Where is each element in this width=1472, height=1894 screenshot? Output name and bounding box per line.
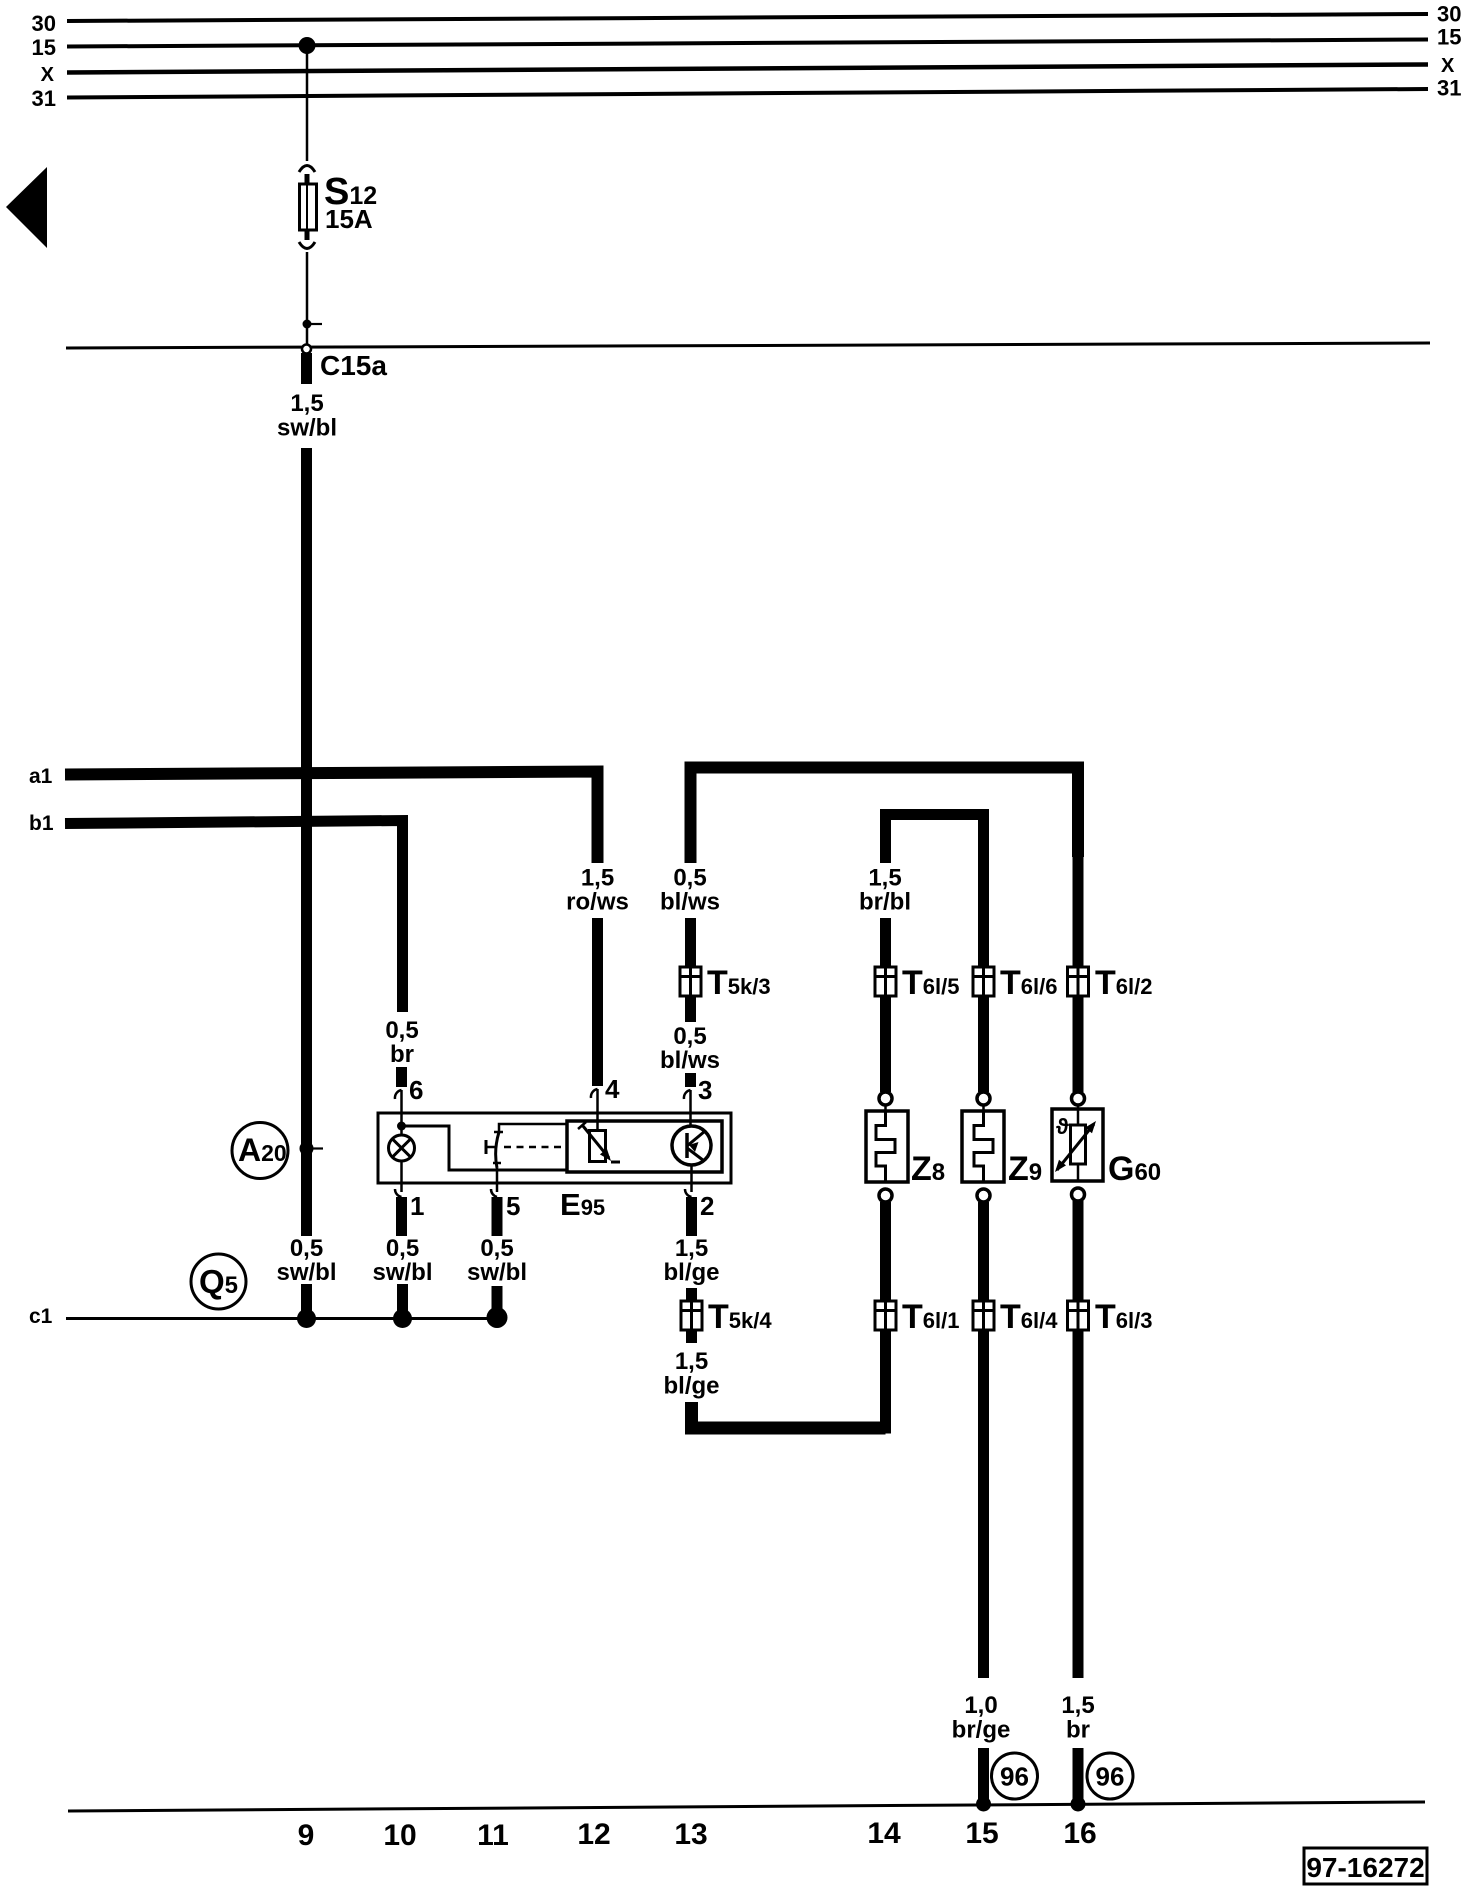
node c1 pin5	[487, 1307, 508, 1328]
svg-text:96: 96	[1096, 1762, 1125, 1792]
main wire sw/bl	[301, 448, 312, 1236]
bus line 30	[67, 14, 1428, 21]
svg-text:1,5: 1,5	[675, 1235, 708, 1262]
svg-text:a1: a1	[29, 765, 53, 788]
wire c1	[66, 1317, 497, 1320]
pin 1 stub	[396, 1197, 407, 1236]
svg-text:0,5: 0,5	[385, 1017, 418, 1044]
E95 inner control box	[567, 1121, 722, 1172]
bus line 15	[67, 40, 1428, 47]
svg-text:bl/ge: bl/ge	[663, 1259, 719, 1286]
wire Z8 to loop bar	[880, 1202, 891, 1434]
rheostat in E95	[578, 1122, 620, 1162]
pin 4 wire into rheostat	[596, 1113, 599, 1131]
svg-text:16: 16	[1063, 1817, 1096, 1850]
svg-text:30: 30	[1437, 2, 1461, 27]
ground ref circle 96 left	[992, 1753, 1038, 1799]
indicator lamp in E95	[389, 1135, 415, 1161]
fuse S12 body	[300, 184, 317, 230]
wire b1	[65, 821, 403, 1013]
pin 4 hook	[591, 1089, 598, 1098]
C15a rail	[66, 343, 1430, 348]
svg-text:30: 30	[32, 11, 56, 36]
svg-text:X: X	[41, 64, 55, 86]
svg-text:15: 15	[1437, 25, 1461, 50]
svg-text:1,0: 1,0	[964, 1692, 997, 1719]
wire b1 right segment	[886, 815, 984, 864]
wire a1	[65, 772, 598, 864]
svg-text:sw/bl: sw/bl	[277, 415, 337, 442]
pin 2 stub	[686, 1197, 697, 1236]
pin 2 hook	[685, 1189, 692, 1197]
connector T6l/4	[973, 1301, 994, 1330]
connector T6l/3	[1068, 1301, 1089, 1330]
pin 3 wire into K	[689, 1113, 692, 1127]
fuse S12 lower hook	[305, 230, 310, 240]
pin 1 hook	[395, 1189, 402, 1197]
bus line X	[67, 65, 1428, 73]
pin 6 stub	[396, 1067, 407, 1087]
wire stub pin3	[685, 1073, 696, 1087]
svg-text:ϑ: ϑ	[1056, 1114, 1069, 1139]
svg-text:br/bl: br/bl	[859, 889, 911, 916]
svg-text:X: X	[1441, 55, 1455, 77]
wire br/bl down to Z8	[880, 918, 891, 1092]
svg-text:0,5: 0,5	[290, 1235, 323, 1262]
svg-text:96: 96	[1000, 1762, 1029, 1792]
wire to ground rail	[978, 1748, 989, 1805]
stub to c1 from pin5	[492, 1286, 503, 1310]
svg-text:bl/ge: bl/ge	[663, 1373, 719, 1400]
svg-text:0,5: 0,5	[673, 865, 706, 892]
svg-text:C15a: C15a	[320, 350, 387, 381]
connector T6l/5	[875, 967, 896, 996]
svg-text:0,5: 0,5	[480, 1235, 513, 1262]
temperature sensor G60	[1052, 1092, 1103, 1201]
connector T6l/2	[1068, 967, 1089, 996]
svg-text:15: 15	[32, 35, 56, 60]
bottom rail	[68, 1802, 1425, 1811]
lamp to pin 1 wire	[400, 1126, 403, 1135]
svg-text:0,5: 0,5	[386, 1235, 419, 1262]
svg-text:15: 15	[965, 1817, 998, 1850]
bus line 31	[67, 89, 1428, 98]
pin 5 hook	[491, 1189, 497, 1197]
switch in E95	[486, 1124, 567, 1168]
wire bl/ws upper	[685, 918, 696, 1022]
wire from bus 15 to fuse	[306, 46, 309, 162]
wire bl/ge to T5k/4	[686, 1288, 697, 1343]
svg-text:c1: c1	[29, 1305, 53, 1328]
svg-text:1,5: 1,5	[675, 1348, 708, 1375]
svg-text:sw/bl: sw/bl	[467, 1259, 527, 1286]
svg-text:31: 31	[1437, 76, 1461, 101]
svg-text:bl/ws: bl/ws	[660, 1047, 720, 1074]
svg-text:1: 1	[410, 1191, 424, 1221]
fuse S12 upper hook	[299, 166, 315, 173]
svg-text:0,5: 0,5	[673, 1023, 706, 1050]
internal link wire step	[402, 1126, 568, 1170]
node on rail	[976, 1797, 991, 1812]
svg-text:31: 31	[32, 86, 56, 111]
stub to c1 from pin1	[397, 1284, 408, 1312]
switch to pin 5 wire	[496, 1168, 499, 1192]
svg-text:97-16272: 97-16272	[1306, 1852, 1424, 1883]
connector C15a circle	[302, 345, 311, 354]
mechanical link dashed	[504, 1146, 567, 1149]
svg-text:5: 5	[506, 1191, 520, 1221]
component code Q5	[191, 1254, 246, 1309]
pin 5 stub	[492, 1197, 503, 1236]
wire fuse to junction	[306, 252, 309, 345]
connector T6l/6	[973, 967, 994, 996]
wire a1 right segment	[691, 768, 1079, 864]
svg-text:br: br	[390, 1041, 414, 1068]
svg-text:6: 6	[409, 1075, 423, 1105]
svg-text:14: 14	[867, 1817, 901, 1850]
pin 2 wire from K	[690, 1165, 693, 1192]
svg-text:11: 11	[477, 1819, 509, 1852]
wire G60 down	[1073, 1201, 1084, 1678]
node on main wire at A20	[300, 1142, 314, 1156]
heated seat control E95 outer box	[378, 1113, 731, 1183]
svg-text:15A: 15A	[325, 204, 373, 234]
svg-text:b1: b1	[29, 812, 54, 835]
svg-text:ro/ws: ro/ws	[566, 889, 629, 916]
wire bl/ge corner to loop bar	[692, 1402, 886, 1428]
svg-text:13: 13	[674, 1818, 707, 1851]
heater element Z9	[962, 1092, 1004, 1202]
left direction arrow	[6, 167, 47, 248]
svg-text:1,5: 1,5	[581, 865, 614, 892]
svg-text:12: 12	[577, 1818, 610, 1851]
svg-text:br/ge: br/ge	[952, 1717, 1011, 1744]
component code A20	[232, 1123, 288, 1179]
ground ref circle 96 right	[1087, 1753, 1133, 1799]
node c1 main	[297, 1309, 316, 1328]
svg-text:4: 4	[605, 1074, 620, 1104]
svg-text:2: 2	[700, 1191, 714, 1221]
svg-text:1,5: 1,5	[290, 390, 323, 417]
node in E95 at lamp	[397, 1122, 406, 1131]
pin 6 hook	[395, 1090, 402, 1099]
stub to c1 from main wire	[301, 1284, 312, 1312]
wire ro/ws	[592, 918, 603, 1086]
pin 3 hook	[684, 1090, 691, 1099]
wire to ground rail	[1073, 1748, 1084, 1805]
svg-text:1,5: 1,5	[868, 865, 901, 892]
wire Z9 down	[978, 1202, 989, 1678]
connector T5k/3	[680, 967, 701, 996]
svg-text:br: br	[1066, 1717, 1090, 1744]
drawing number box 97-16272	[1304, 1848, 1427, 1884]
node on bus 15	[299, 37, 316, 54]
wire down to Z9	[978, 860, 989, 1092]
wire stub below C15a	[301, 353, 312, 384]
svg-text:sw/bl: sw/bl	[372, 1259, 432, 1286]
heater element Z8	[866, 1092, 908, 1202]
junction node with tick	[303, 320, 312, 329]
node c1 pin1	[393, 1309, 412, 1328]
svg-text:9: 9	[298, 1819, 315, 1852]
svg-text:bl/ws: bl/ws	[660, 889, 720, 916]
connector T6l/1	[875, 1301, 896, 1330]
svg-text:10: 10	[383, 1819, 416, 1852]
svg-text:sw/bl: sw/bl	[276, 1259, 336, 1286]
connector T5k/4	[681, 1301, 702, 1330]
svg-text:1,5: 1,5	[1061, 1692, 1094, 1719]
controller symbol K in E95	[672, 1126, 711, 1165]
node on rail	[1071, 1797, 1086, 1812]
wire down to G60	[1073, 855, 1084, 1092]
svg-text:3: 3	[698, 1075, 712, 1105]
